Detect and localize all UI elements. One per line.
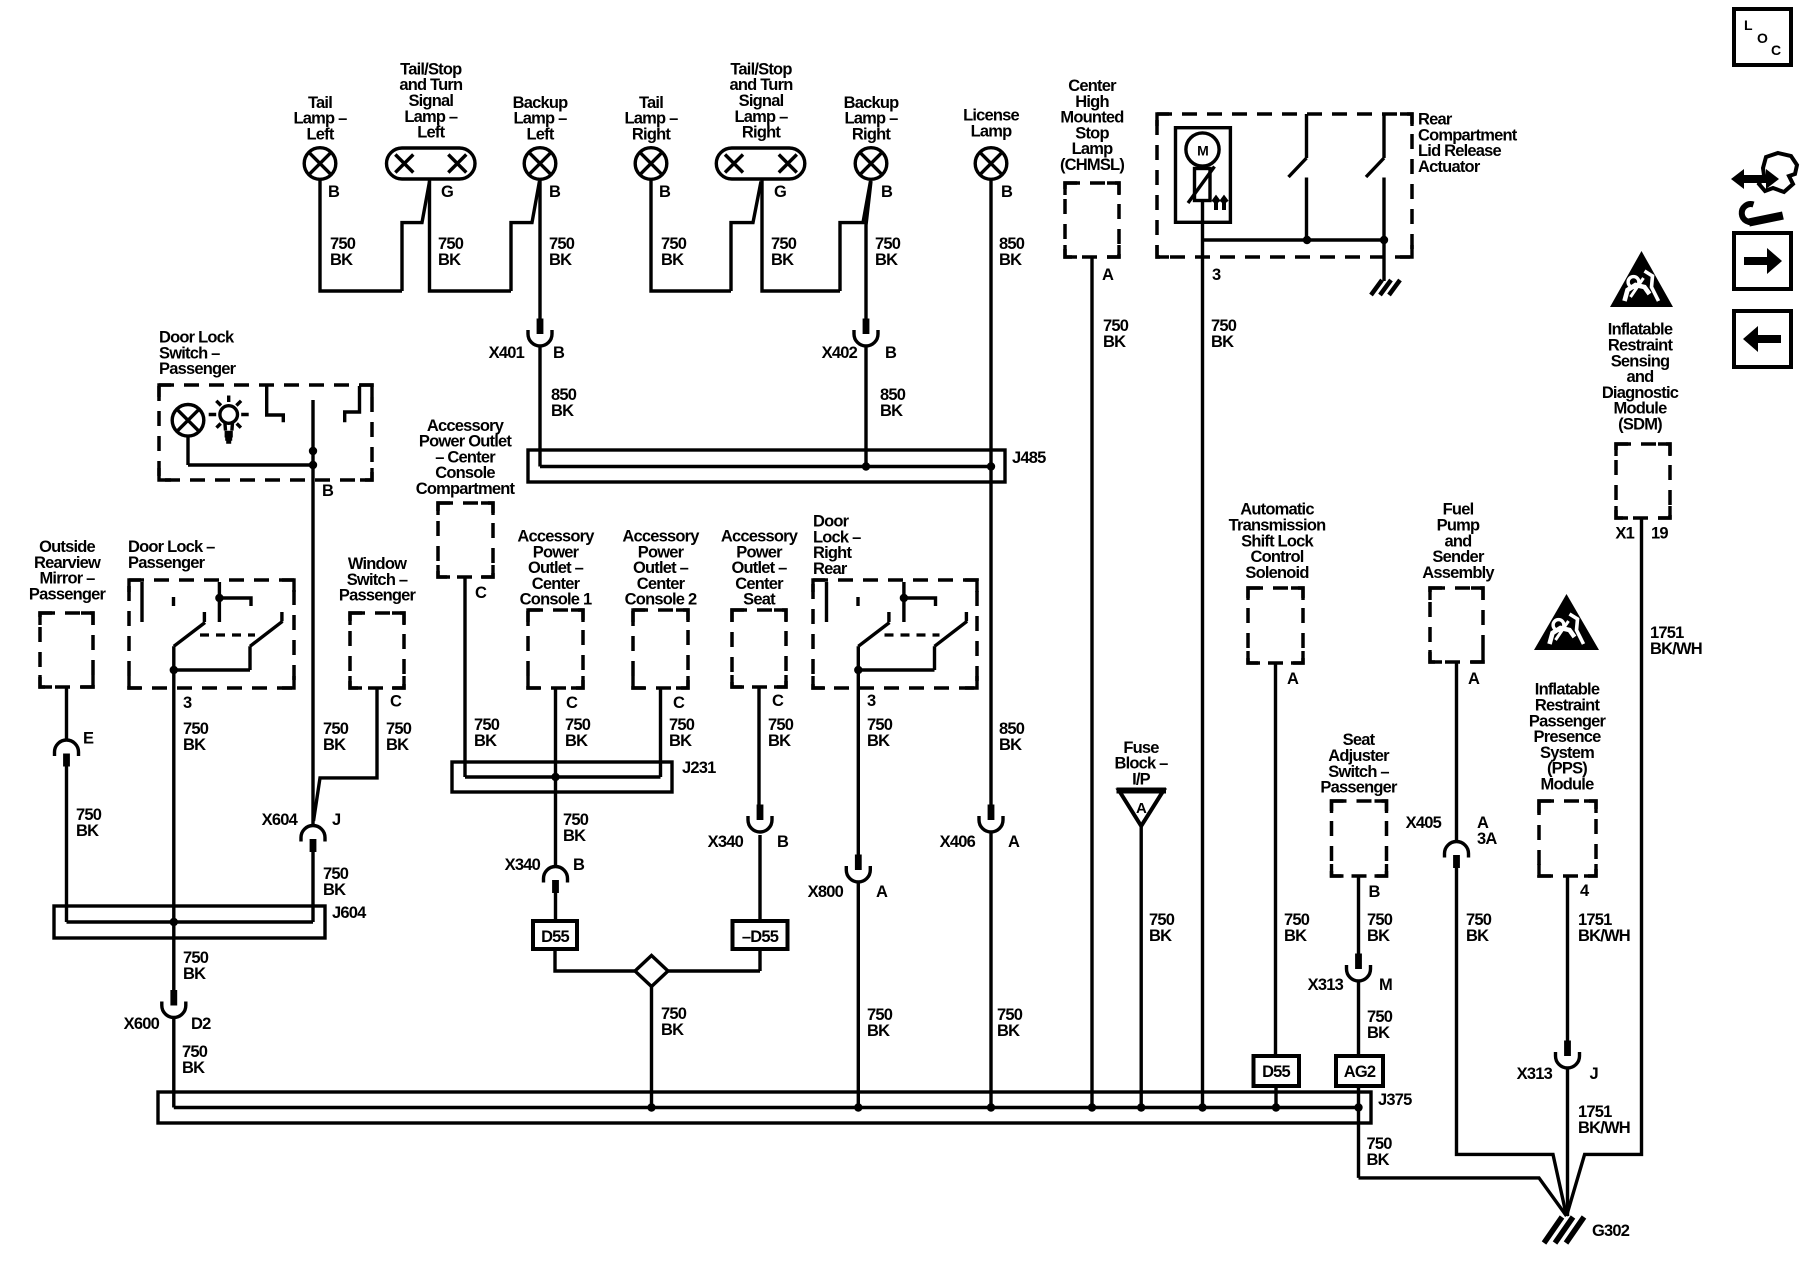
svg-text:C: C [566,694,578,712]
svg-text:B: B [1369,883,1381,901]
svg-text:BK: BK [549,251,572,269]
svg-text:X313: X313 [1308,976,1344,994]
svg-text:G302: G302 [1592,1222,1630,1240]
svg-text:G: G [441,183,453,201]
svg-text:BK: BK [551,402,574,420]
svg-text:Solenoid: Solenoid [1245,564,1308,582]
svg-text:BK: BK [1367,1151,1390,1169]
svg-text:Right: Right [852,125,891,143]
svg-text:BK: BK [999,251,1022,269]
svg-text:BK: BK [474,732,497,750]
svg-text:3A: 3A [1477,830,1497,848]
svg-text:J: J [332,811,341,829]
svg-text:BK: BK [771,251,794,269]
svg-text:B: B [549,183,561,201]
svg-text:B: B [885,344,897,362]
svg-text:A: A [1287,670,1299,688]
svg-text:C: C [772,692,784,710]
svg-text:3: 3 [867,692,876,710]
svg-text:L: L [1744,17,1753,33]
svg-text:BK: BK [661,251,684,269]
svg-text:M: M [1379,976,1392,994]
svg-text:C: C [390,693,402,711]
svg-text:B: B [322,482,334,500]
svg-text:X313: X313 [1517,1065,1553,1083]
svg-text:D55: D55 [1262,1063,1290,1081]
svg-text:BK: BK [1103,333,1126,351]
svg-text:BK: BK [386,736,409,754]
svg-text:X800: X800 [808,883,844,901]
svg-text:BK: BK [880,402,903,420]
svg-text:C: C [1771,42,1781,58]
svg-text:BK: BK [867,732,890,750]
svg-text:G: G [774,183,786,201]
svg-text:A: A [1468,670,1480,688]
svg-text:D55: D55 [541,928,569,946]
svg-text:Right: Right [632,125,671,143]
svg-text:BK: BK [330,251,353,269]
svg-text:BK: BK [999,736,1022,754]
svg-text:A: A [1008,833,1020,851]
svg-text:–D55: –D55 [742,928,779,946]
svg-text:19: 19 [1651,525,1668,543]
svg-text:B: B [881,183,893,201]
svg-text:Left: Left [306,125,334,143]
svg-text:BK: BK [1367,1024,1390,1042]
svg-text:Module: Module [1541,776,1595,794]
svg-text:Actuator: Actuator [1418,158,1481,176]
svg-text:3: 3 [1212,266,1221,284]
svg-text:B: B [573,856,585,874]
svg-text:A: A [1102,266,1114,284]
svg-text:Console 2: Console 2 [625,591,697,609]
svg-text:Rear: Rear [813,560,848,578]
svg-text:I/P: I/P [1132,770,1151,788]
svg-text:X405: X405 [1406,814,1442,832]
svg-text:E: E [83,730,94,748]
svg-text:J485: J485 [1012,449,1046,467]
svg-text:B: B [1001,183,1013,201]
svg-text:BK: BK [997,1022,1020,1040]
svg-text:Assembly: Assembly [1422,564,1495,582]
svg-text:J231: J231 [682,759,716,777]
svg-text:BK: BK [669,732,692,750]
svg-text:D2: D2 [191,1015,211,1033]
svg-text:Passenger: Passenger [29,586,107,604]
svg-text:BK: BK [183,965,206,983]
svg-text:B: B [659,183,671,201]
svg-text:X402: X402 [822,344,858,362]
svg-text:BK: BK [563,827,586,845]
svg-text:BK: BK [183,736,206,754]
svg-text:A: A [1136,800,1147,817]
svg-text:Passenger: Passenger [128,554,206,572]
svg-text:Passenger: Passenger [1320,779,1398,797]
svg-text:A: A [876,883,888,901]
svg-text:BK: BK [867,1022,890,1040]
svg-text:Right: Right [742,124,781,142]
svg-text:X604: X604 [262,811,299,829]
svg-text:BK: BK [1466,927,1489,945]
svg-text:Passenger: Passenger [339,587,417,605]
svg-text:O: O [1757,30,1768,46]
svg-text:BK: BK [76,822,99,840]
svg-text:B: B [777,833,789,851]
svg-text:BK: BK [1149,927,1172,945]
svg-text:BK: BK [323,881,346,899]
svg-text:Left: Left [526,125,554,143]
svg-text:J: J [1590,1065,1599,1083]
svg-text:AG2: AG2 [1344,1063,1376,1081]
svg-text:BK: BK [661,1021,684,1039]
svg-text:BK: BK [438,251,461,269]
svg-text:J375: J375 [1378,1091,1412,1109]
svg-text:BK: BK [875,251,898,269]
svg-text:Seat: Seat [743,591,776,609]
svg-text:Left: Left [417,124,445,142]
svg-text:C: C [673,694,685,712]
svg-text:X406: X406 [940,833,976,851]
svg-text:(SDM): (SDM) [1618,416,1662,434]
svg-text:BK: BK [1367,927,1390,945]
svg-text:BK: BK [768,732,791,750]
svg-text:X1: X1 [1615,525,1634,543]
svg-text:BK/WH: BK/WH [1578,1119,1630,1137]
svg-text:B: B [328,183,340,201]
svg-text:C: C [475,584,487,602]
svg-text:M: M [1197,143,1208,159]
svg-text:3: 3 [183,694,192,712]
svg-text:Console 1: Console 1 [520,591,592,609]
svg-text:X340: X340 [708,833,744,851]
svg-text:BK/WH: BK/WH [1650,640,1702,658]
svg-text:BK/WH: BK/WH [1578,927,1630,945]
svg-text:BK: BK [1211,333,1234,351]
svg-text:X340: X340 [505,856,541,874]
svg-text:(CHMSL): (CHMSL) [1060,156,1124,174]
svg-text:BK: BK [182,1059,205,1077]
svg-text:J604: J604 [332,904,367,922]
svg-text:Lamp: Lamp [971,123,1013,141]
svg-text:BK: BK [565,732,588,750]
svg-text:Passenger: Passenger [159,360,237,378]
svg-text:BK: BK [1284,927,1307,945]
svg-text:BK: BK [323,736,346,754]
svg-text:Compartment: Compartment [416,480,516,498]
svg-text:B: B [553,344,565,362]
svg-text:X401: X401 [489,344,525,362]
svg-text:X600: X600 [124,1015,160,1033]
